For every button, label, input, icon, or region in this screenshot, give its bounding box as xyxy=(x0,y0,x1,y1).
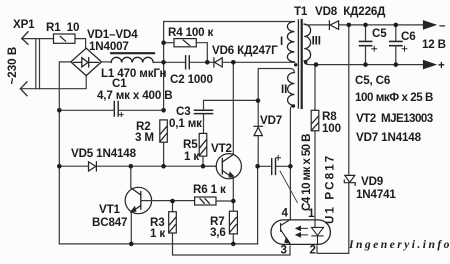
svg-text:C6: C6 xyxy=(401,30,416,43)
wire VD7 anode down xyxy=(257,136,259,167)
connector XP1 cord lines xyxy=(36,39,40,89)
wire VD6 to primary bottom xyxy=(222,61,294,63)
wire R1 to bridge top xyxy=(75,39,86,49)
resistor R5 xyxy=(199,133,207,156)
wire winding II top node to VD7 xyxy=(257,100,259,126)
wire winding II top lead xyxy=(258,69,294,101)
inductor L1 winding xyxy=(111,57,153,62)
svg-text:1 к: 1 к xyxy=(184,150,199,163)
svg-text:VD7: VD7 xyxy=(260,114,282,127)
svg-text:III: III xyxy=(312,35,321,48)
svg-text:3: 3 xyxy=(281,244,288,257)
svg-text:3,6: 3,6 xyxy=(210,226,226,239)
resistor R2 xyxy=(160,120,168,142)
wire C6 stubs xyxy=(395,25,397,65)
wire bottom mains lead xyxy=(20,76,86,89)
svg-text:VD9: VD9 xyxy=(361,175,384,188)
transformer phase dots xyxy=(294,63,297,66)
resistor R6 xyxy=(195,197,216,205)
wire R5 bottom xyxy=(202,156,204,166)
svg-text:XP1: XP1 xyxy=(13,18,35,31)
optocoupler U1 light arrows xyxy=(295,226,307,237)
svg-text:~230 В: ~230 В xyxy=(6,47,19,85)
svg-text:II: II xyxy=(281,83,287,96)
resistor R8 xyxy=(311,110,319,131)
capacitor C3 xyxy=(195,110,213,113)
wire winding III top lead to VD8 xyxy=(306,24,330,26)
svg-text:R1 10: R1 10 xyxy=(46,21,79,34)
connector XP1 top prong arrow xyxy=(22,32,28,44)
capacitor C4 xyxy=(272,159,276,175)
resistor R3 xyxy=(169,212,177,233)
wire minus rail xyxy=(339,24,424,26)
svg-text:R4 100 к: R4 100 к xyxy=(168,26,214,39)
wire L1 to node xyxy=(153,61,163,63)
wire bridge left corner to left rail xyxy=(59,62,71,244)
wire VD7-C4 node riser from bottom rail xyxy=(257,166,259,244)
wire R3 bottom to opto pin3 xyxy=(173,233,291,255)
optocoupler U1 phototransistor xyxy=(281,220,290,244)
svg-text:VT2 MJE13003: VT2 MJE13003 xyxy=(356,112,434,125)
wire bottom rail xyxy=(59,243,257,245)
transformer T1 winding III xyxy=(304,24,310,61)
wire R4 right to C2 row xyxy=(196,43,207,63)
svg-text:1N4007: 1N4007 xyxy=(89,40,129,53)
svg-text:0,1 мк: 0,1 мк xyxy=(169,117,202,130)
diode VD5 xyxy=(89,162,97,171)
zener diode VD9 xyxy=(344,175,355,185)
wire top rail to primary xyxy=(164,21,295,23)
wire plus rail xyxy=(318,64,424,66)
wire R4 left xyxy=(164,42,174,44)
wire VD9 to opto pin2 xyxy=(317,183,349,254)
svg-text:Ingeneryi.info: Ingeneryi.info xyxy=(348,238,450,251)
svg-text:U1 PC817: U1 PC817 xyxy=(324,154,337,224)
transistor VT1 xyxy=(125,187,151,213)
wire C5 stubs xyxy=(365,25,367,65)
wire minus rail riser R8 xyxy=(314,65,316,111)
svg-text:BC847: BC847 xyxy=(92,216,127,229)
wire winding II bottom lead xyxy=(290,106,294,167)
svg-text:100: 100 xyxy=(322,122,341,135)
wire R6 right to R7 node xyxy=(216,200,233,202)
diode VD8 xyxy=(329,21,338,30)
svg-text:4: 4 xyxy=(282,207,289,220)
svg-text:2: 2 xyxy=(310,244,316,257)
svg-text:C2 1000: C2 1000 xyxy=(170,73,213,86)
wire bridge right corner to L1 xyxy=(102,61,112,63)
inductor L1 core dashes xyxy=(111,52,154,54)
wire VT1 emitter xyxy=(130,212,132,244)
connector XP1 bottom prong arrow xyxy=(20,82,27,96)
svg-text:+: + xyxy=(438,59,445,72)
svg-text:C5: C5 xyxy=(372,27,387,40)
output arrow minus xyxy=(424,21,436,29)
svg-text:3 М: 3 М xyxy=(135,131,154,144)
output arrow plus xyxy=(424,61,436,69)
wire VT1 collector xyxy=(130,166,132,187)
wire R8 to opto pin1 xyxy=(314,131,316,220)
transformer T1 winding II xyxy=(288,73,295,106)
wire VD5 row xyxy=(59,165,216,167)
diode VD6 xyxy=(214,58,222,67)
svg-text:VD7 1N4148: VD7 1N4148 xyxy=(356,131,422,144)
resistor R4 xyxy=(174,39,196,47)
wire VT2 base xyxy=(203,165,216,167)
polarity plus marks xyxy=(119,46,408,161)
svg-text:L1 470 мкГн: L1 470 мкГн xyxy=(101,67,166,80)
svg-text:C5, C6: C5, C6 xyxy=(355,74,391,87)
svg-text:R6 1 к: R6 1 к xyxy=(193,183,226,196)
wire C4 leads xyxy=(258,165,290,167)
wire snubber-left vertical x164 xyxy=(163,22,165,111)
svg-text:12 В: 12 В xyxy=(422,38,446,51)
svg-text:T1: T1 xyxy=(294,5,308,18)
optocoupler U1 LED xyxy=(311,220,323,244)
wire opto pin4 riser xyxy=(289,166,291,220)
resistor R7 xyxy=(229,211,237,234)
label leader line C4 xyxy=(280,171,297,202)
wire R3 top xyxy=(172,201,174,212)
wire top mains lead xyxy=(22,38,54,40)
svg-text:100 мкФ х 25 В: 100 мкФ х 25 В xyxy=(355,91,433,104)
transformer T1 core xyxy=(297,20,299,108)
wire minus bus row C1 xyxy=(59,109,163,111)
capacitor C5 xyxy=(360,41,372,45)
wire winding III bottom lead to +rail xyxy=(304,61,318,65)
svg-text:–: – xyxy=(439,19,446,32)
svg-text:4,7 мк х 400 В: 4,7 мк х 400 В xyxy=(97,89,172,102)
wire C3 top lead xyxy=(204,100,259,110)
resistor R1 xyxy=(54,34,76,43)
svg-text:VD8 КД226Д: VD8 КД226Д xyxy=(315,5,386,18)
capacitor C1 xyxy=(114,102,118,117)
svg-text:C4 10 мк х 50 В: C4 10 мк х 50 В xyxy=(300,134,313,211)
wire VT2 emitter down xyxy=(232,178,234,202)
wire VT2 collector riser xyxy=(232,62,234,154)
wire C3 bottom to R5 xyxy=(203,114,205,134)
wire R2 bottom xyxy=(163,142,165,166)
svg-text:VD5 1N4148: VD5 1N4148 xyxy=(71,147,137,160)
svg-text:1N4741: 1N4741 xyxy=(356,188,396,201)
optocoupler U1 body xyxy=(271,220,330,245)
transistor VT2 xyxy=(216,154,241,179)
diode VD7 xyxy=(254,126,263,135)
svg-text:VD6 КД247Г: VD6 КД247Г xyxy=(212,44,278,57)
svg-text:VT2: VT2 xyxy=(211,142,232,155)
bridge rectifier VD1-VD4 xyxy=(71,48,102,75)
svg-text:1: 1 xyxy=(308,207,315,220)
wire R7 leads xyxy=(232,201,234,244)
capacitor C2 xyxy=(186,56,190,69)
wire C2 row xyxy=(164,61,214,63)
wire VD9 branch top xyxy=(348,25,350,175)
svg-text:I: I xyxy=(280,35,283,48)
svg-text:1 к: 1 к xyxy=(150,227,165,240)
capacitor C6 xyxy=(390,41,402,45)
transformer T1 primary I xyxy=(287,22,294,63)
svg-text:VT1: VT1 xyxy=(99,203,121,216)
wire VT1 base rail xyxy=(141,200,195,202)
